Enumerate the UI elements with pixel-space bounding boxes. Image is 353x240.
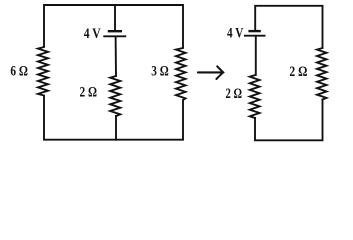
wire: middle branch between battery and R2 [115, 37, 117, 76]
resistor R1 6 ohm [38, 47, 48, 96]
svg-text:4 V: 4 V [84, 26, 101, 42]
wire: circuit 1 bottom [44, 96, 183, 140]
arrow between circuits [198, 66, 223, 79]
wire: circuit 2 bottom [255, 99, 323, 140]
wire: circuit 2 top [255, 6, 322, 48]
svg-text:2 Ω: 2 Ω [226, 86, 243, 102]
battery B2 4 V bottom plate [245, 35, 265, 37]
battery B2 4 V top plate [250, 30, 260, 32]
svg-text:4 V: 4 V [227, 26, 243, 42]
svg-text:3 Ω: 3 Ω [151, 63, 169, 79]
resistor R5 2 ohm right branch circuit 2 [317, 48, 327, 100]
battery B1 4 V bottom plate [104, 35, 125, 37]
wire: middle branch upper [114, 5, 116, 29]
resistor R3 3 ohm [176, 48, 186, 100]
svg-text:2 Ω: 2 Ω [289, 64, 307, 80]
wire: circuit 1 top [44, 5, 183, 48]
battery B1 4 V top plate [109, 30, 121, 32]
svg-text:6 Ω: 6 Ω [10, 63, 28, 79]
resistor R2 2 ohm [110, 76, 120, 116]
resistor R4 2 ohm left branch circuit 2 [250, 75, 260, 118]
svg-text:2 Ω: 2 Ω [80, 84, 98, 100]
wire: middle branch lower [115, 116, 117, 140]
wire: circuit 2 left between battery and resistor [255, 36, 257, 75]
